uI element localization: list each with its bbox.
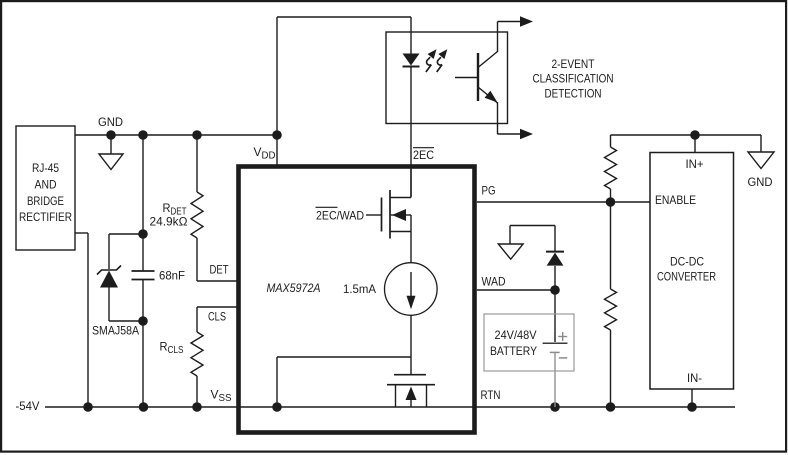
svg-text:DETECTION: DETECTION [545, 87, 602, 101]
svg-text:GND: GND [98, 115, 123, 129]
svg-text:CLASSIFICATION: CLASSIFICATION [533, 72, 614, 86]
svg-text:IN+: IN+ [686, 157, 704, 171]
svg-text:RECTIFIER: RECTIFIER [19, 210, 72, 224]
svg-text:BRIDGE: BRIDGE [27, 194, 64, 208]
svg-text:24V/48V: 24V/48V [495, 328, 537, 342]
svg-text:BATTERY: BATTERY [490, 344, 537, 358]
svg-text:2-EVENT: 2-EVENT [552, 57, 596, 71]
svg-text:AND: AND [35, 178, 57, 192]
svg-text:-54V: -54V [16, 399, 40, 413]
svg-text:CLS: CLS [208, 310, 226, 324]
svg-text:RJ-45: RJ-45 [32, 161, 59, 175]
svg-text:2EC: 2EC [413, 148, 434, 162]
svg-text:CONVERTER: CONVERTER [657, 270, 716, 284]
svg-text:DET: DET [210, 263, 230, 277]
svg-text:IN-: IN- [687, 371, 702, 385]
svg-text:PG: PG [482, 184, 496, 198]
svg-text:RTN: RTN [481, 388, 501, 402]
svg-text:SMAJ58A: SMAJ58A [92, 324, 139, 338]
svg-text:WAD: WAD [482, 275, 506, 289]
svg-text:ENABLE: ENABLE [655, 193, 696, 207]
svg-text:2EC/WAD: 2EC/WAD [316, 209, 364, 223]
svg-text:GND: GND [748, 175, 773, 189]
svg-text:MAX5972A: MAX5972A [267, 281, 321, 295]
svg-text:DC-DC: DC-DC [670, 255, 704, 269]
svg-text:1.5mA: 1.5mA [343, 282, 376, 296]
svg-text:68nF: 68nF [159, 269, 185, 283]
svg-text:24.9kΩ: 24.9kΩ [150, 215, 188, 229]
